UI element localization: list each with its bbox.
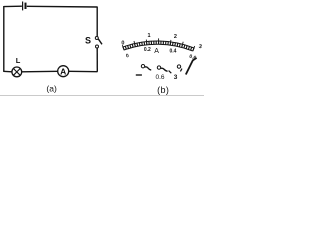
wire top-left segment	[4, 5, 22, 7]
wire bottom right segment	[69, 70, 98, 72]
wire bottom left segment	[3, 70, 12, 73]
svg-text:A: A	[60, 66, 66, 76]
terminal post minus	[141, 65, 144, 68]
svg-text:2: 2	[174, 34, 177, 40]
tail mark of post 0.6	[169, 71, 172, 74]
wire right side lower	[96, 48, 98, 72]
baseline rule	[0, 95, 204, 97]
label minus	[136, 74, 142, 76]
svg-text:0: 0	[125, 53, 129, 60]
svg-text:0.4: 0.4	[170, 49, 177, 55]
battery B1 long plate	[22, 2, 24, 11]
svg-text:L: L	[16, 56, 21, 65]
battery B1 short thick plate	[25, 3, 27, 9]
switch S lower contact	[96, 45, 99, 48]
terminal post 3	[177, 65, 180, 68]
terminal post 0.6	[157, 66, 160, 69]
switch S upper contact	[95, 37, 98, 40]
needle mark	[186, 58, 197, 75]
meter scale bottom arc	[124, 44, 193, 51]
meter scale top arc	[123, 41, 194, 48]
wire left side	[3, 6, 5, 71]
svg-text:0.6: 0.6	[155, 74, 164, 81]
svg-text:3: 3	[198, 44, 202, 50]
svg-text:3: 3	[174, 74, 178, 81]
lamp L	[12, 67, 22, 77]
svg-text:A: A	[154, 48, 159, 55]
svg-text:(a): (a)	[46, 83, 57, 93]
meter minor ticks	[123, 41, 194, 51]
svg-text:0.2: 0.2	[144, 47, 151, 53]
meter major ticks	[122, 38, 194, 51]
ammeter A	[58, 66, 69, 77]
wire top-right segment	[27, 5, 97, 8]
small dash mark	[180, 69, 182, 72]
svg-text:(b): (b)	[157, 85, 169, 95]
wire right side upper	[96, 7, 98, 37]
switch S blade	[98, 39, 102, 45]
svg-text:1: 1	[147, 33, 150, 39]
wire bottom middle segment	[22, 70, 58, 73]
svg-text:S: S	[85, 35, 91, 45]
svg-text:0: 0	[121, 40, 124, 46]
